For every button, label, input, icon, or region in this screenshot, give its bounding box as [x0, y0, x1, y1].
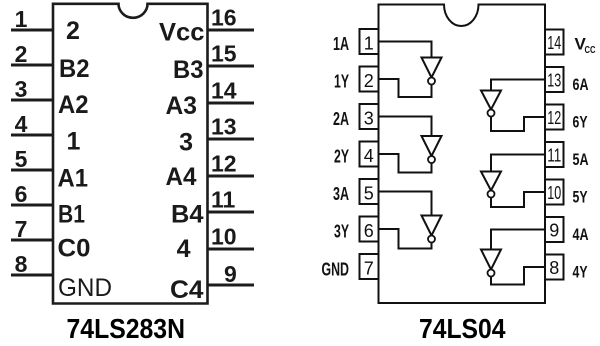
inverter U2E triangle [481, 172, 501, 191]
inverter U2B triangle [422, 136, 442, 156]
U2 pin 3 box [360, 104, 379, 129]
svg-text:10: 10 [211, 224, 237, 250]
U2 pin 13 box [545, 67, 564, 92]
svg-text:A1: A1 [58, 165, 89, 193]
svg-text:9: 9 [224, 261, 237, 287]
U1 pin 10 lead [207, 248, 254, 251]
svg-text:7: 7 [364, 259, 374, 279]
inverter U2B input wire pin3 [379, 117, 432, 137]
svg-text:B3: B3 [173, 56, 204, 84]
inverter U2D output wire to pin8 [491, 267, 545, 285]
svg-text:B1: B1 [58, 201, 85, 229]
U1 pin 15 lead [207, 65, 254, 68]
U1 pin 13 lead [207, 138, 254, 141]
inverter U2F triangle [481, 91, 501, 110]
svg-text:14: 14 [547, 33, 561, 53]
svg-text:7: 7 [15, 216, 28, 242]
svg-text:74LS283N: 74LS283N [67, 313, 186, 344]
inverter U2A triangle [422, 58, 442, 78]
svg-text:4Y: 4Y [573, 263, 588, 282]
svg-text:2A: 2A [333, 108, 349, 129]
svg-text:2Y: 2Y [334, 146, 349, 167]
svg-text:1: 1 [364, 34, 374, 54]
svg-text:Vcc: Vcc [159, 19, 205, 47]
U2 pin 6 box [360, 217, 379, 242]
svg-text:3A: 3A [333, 183, 349, 204]
svg-text:4: 4 [177, 235, 191, 263]
svg-text:C0: C0 [58, 235, 91, 263]
U1 pin 14 lead [207, 102, 254, 105]
svg-text:11: 11 [211, 187, 236, 213]
svg-text:2: 2 [66, 17, 80, 45]
svg-text:5: 5 [364, 184, 374, 204]
svg-text:12: 12 [211, 151, 237, 177]
U2 pin 14 box [545, 30, 564, 55]
svg-text:5A: 5A [573, 150, 589, 169]
svg-text:13: 13 [211, 114, 237, 140]
inverter U2C bubble [428, 236, 435, 243]
svg-text:1Y: 1Y [334, 71, 349, 92]
U1 pin 16 lead [207, 29, 254, 32]
inverter U2F bubble [488, 110, 495, 117]
svg-text:4: 4 [364, 146, 374, 166]
inverter U2E bubble [488, 191, 495, 198]
svg-text:5Y: 5Y [573, 188, 588, 207]
svg-text:GND: GND [58, 274, 112, 302]
svg-text:5: 5 [15, 146, 28, 172]
U2 pin 7 box [360, 254, 379, 279]
U1 pin 8 lead [11, 274, 53, 277]
svg-text:6: 6 [15, 181, 28, 207]
U2 pin 11 box [545, 142, 564, 167]
svg-text:3: 3 [15, 76, 28, 102]
svg-text:C4: C4 [170, 276, 204, 304]
svg-text:74LS04: 74LS04 [419, 313, 506, 344]
svg-text:8: 8 [549, 258, 559, 278]
U2 pin 10 box [545, 180, 564, 205]
U2 pin 9 box [545, 217, 564, 242]
svg-text:CC: CC [585, 45, 596, 56]
svg-text:4A: 4A [573, 225, 589, 244]
svg-text:B2: B2 [59, 55, 90, 83]
svg-text:16: 16 [211, 5, 237, 31]
svg-text:1: 1 [67, 128, 81, 156]
svg-text:3Y: 3Y [334, 221, 349, 242]
inverter U2A output wire to pin2 [379, 79, 432, 97]
inverter U2B output wire to pin4 [379, 154, 432, 173]
svg-text:15: 15 [211, 41, 237, 67]
inverter U2C output wire to pin6 [379, 229, 432, 249]
U1 pin 4 lead [11, 134, 53, 137]
IC U1 74LS283N body [53, 4, 208, 304]
inverter U2F input wire pin13 [491, 80, 545, 91]
inverter U2B bubble [428, 156, 435, 163]
U1 pin 7 lead [11, 239, 53, 242]
inverter U2C input wire pin5 [379, 192, 432, 216]
U1 pin 1 lead [11, 29, 53, 32]
svg-text:GND: GND [322, 259, 350, 280]
svg-text:13: 13 [547, 71, 561, 91]
inverter U2D triangle [481, 250, 501, 270]
svg-text:6Y: 6Y [573, 113, 588, 132]
svg-text:6: 6 [364, 221, 374, 241]
U1 pin 9 lead [207, 284, 254, 287]
inverter U2A bubble [428, 78, 435, 85]
U1 pin 2 lead [11, 64, 53, 67]
U2 pin 8 box [545, 255, 564, 280]
IC U2 74LS04 body [379, 5, 546, 304]
inverter U2D input wire pin9 [491, 230, 545, 250]
U1 pin 5 lead [11, 169, 53, 172]
svg-text:3: 3 [179, 129, 193, 157]
svg-text:3: 3 [364, 109, 374, 129]
svg-text:1: 1 [15, 6, 28, 32]
svg-text:A2: A2 [58, 91, 89, 119]
inverter U2A input wire pin1 [379, 42, 432, 58]
U1 pin 12 lead [207, 175, 254, 178]
U2 pin 12 box [545, 105, 564, 130]
svg-text:8: 8 [15, 251, 28, 277]
svg-text:12: 12 [547, 108, 561, 128]
svg-text:2: 2 [15, 41, 28, 67]
U1 pin 3 lead [11, 99, 53, 102]
svg-text:14: 14 [211, 78, 237, 104]
inverter U2D bubble [488, 270, 495, 277]
svg-text:2: 2 [364, 71, 374, 91]
inverter U2F output wire to pin12 [491, 117, 545, 132]
U2 pin 4 box [360, 142, 379, 167]
U2 pin 5 box [360, 179, 379, 204]
svg-text:10: 10 [547, 183, 561, 203]
U2 pin 2 box [360, 67, 379, 92]
svg-text:A3: A3 [166, 92, 198, 120]
svg-text:6A: 6A [573, 75, 589, 94]
svg-text:1A: 1A [333, 33, 349, 54]
U1 pin 6 lead [11, 204, 53, 207]
svg-text:B4: B4 [171, 201, 204, 229]
svg-text:9: 9 [549, 221, 559, 241]
svg-text:A4: A4 [166, 163, 197, 191]
U1 pin 11 lead [207, 211, 254, 214]
inverter U2E input wire pin11 [491, 155, 545, 172]
inverter U2E output wire to pin10 [491, 192, 545, 207]
svg-text:11: 11 [547, 146, 561, 166]
inverter U2C triangle [422, 216, 442, 236]
svg-text:4: 4 [15, 111, 28, 137]
U2 pin 1 box [360, 29, 379, 54]
